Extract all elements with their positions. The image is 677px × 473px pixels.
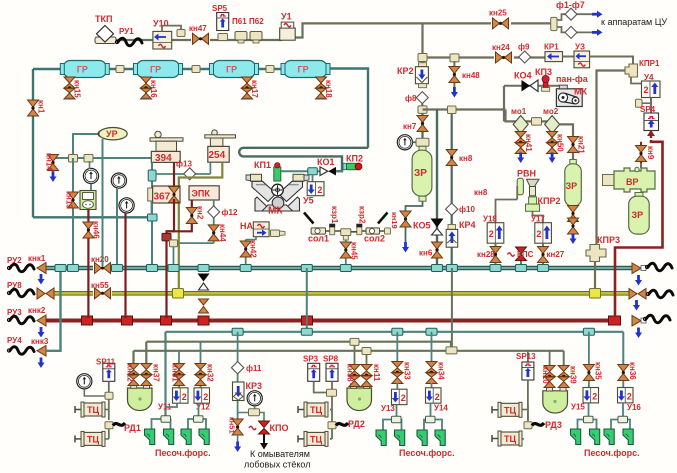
svg-text:кн2: кн2 — [196, 206, 205, 220]
fitting У14 T — [426, 416, 436, 423]
fitting ф1-ф7 manifold — [551, 14, 592, 32]
connector кн13 bus — [68, 265, 79, 272]
separator мо1 — [511, 107, 528, 133]
wire мо2 to кн21/ЗР — [560, 124, 573, 163]
svg-text:кнк2: кнк2 — [28, 306, 46, 315]
svg-text:ЗР: ЗР — [414, 168, 427, 179]
wire кн44 to bus — [174, 243, 214, 265]
fitting У16 T — [618, 416, 628, 423]
svg-text:кн6: кн6 — [419, 249, 433, 258]
wire У4 down / fitting — [636, 98, 652, 114]
svg-text:МК: МК — [268, 206, 283, 217]
device НА (воздухоочиститель) — [240, 221, 269, 237]
wire КО4 line y85.8 — [504, 85, 559, 87]
pressure switch SP11 — [96, 358, 116, 421]
regulator КПР2 — [526, 196, 561, 211]
arrow к аппаратам upper — [592, 11, 603, 18]
svg-text:У16: У16 — [627, 403, 641, 412]
svg-text:SP11: SP11 — [96, 358, 116, 367]
hose РУ8 right — [646, 290, 673, 298]
valve кн8 — [446, 150, 473, 166]
svg-text:ф8: ф8 — [405, 94, 417, 103]
tank ГР4 — [281, 61, 330, 78]
solenoid сол2 — [364, 213, 388, 244]
svg-text:КР4: КР4 — [459, 220, 476, 230]
svg-text:РД3: РД3 — [545, 420, 562, 430]
pressure switch SP3 — [303, 355, 320, 382]
valve кн33 — [392, 362, 412, 390]
fitting maroon T x166 — [162, 233, 171, 241]
svg-text:РД2: РД2 — [348, 419, 365, 429]
wire сол chain — [326, 230, 385, 233]
svg-text:Песоч.форс.: Песоч.форс. — [399, 448, 455, 458]
wire ТКП main line y40 — [112, 39, 282, 41]
valve кн24 — [492, 43, 514, 63]
svg-text:кзр2: кзр2 — [358, 206, 367, 224]
wire мо1 to КО5 column x437 — [436, 110, 438, 266]
svg-text:КПР3: КПР3 — [597, 235, 620, 245]
device У5 — [303, 182, 324, 206]
junction РУ3 x127 — [122, 316, 133, 325]
connector кн33 drop — [392, 328, 403, 364]
svg-text:кн11: кн11 — [372, 364, 381, 382]
wire У12 trouser — [188, 403, 206, 429]
wire У10 bypass loop — [162, 26, 181, 32]
filter ф8 — [405, 92, 428, 104]
wire НА to кн42 — [246, 237, 256, 240]
wire line A y331.8 — [166, 332, 624, 418]
valve кн42 — [240, 240, 257, 272]
valve кн45 — [340, 240, 358, 272]
wire ЭПК right / ф12 — [213, 200, 215, 243]
svg-text:УР: УР — [106, 129, 118, 139]
tank ЗР far right — [629, 193, 650, 235]
valve кн9 — [636, 142, 656, 168]
filter ф9 — [518, 43, 531, 64]
svg-text:РД1: РД1 — [124, 423, 141, 433]
valve кн2 — [186, 206, 204, 224]
svg-text:кн51: кн51 — [228, 417, 237, 434]
svg-text:КПР1: КПР1 — [639, 59, 660, 68]
svg-text:кн33: кн33 — [403, 362, 412, 380]
filter ф10 — [446, 203, 476, 215]
svg-text:У18: У18 — [483, 215, 497, 224]
device П61 — [232, 17, 247, 43]
svg-text:254: 254 — [209, 150, 226, 161]
nozzle П12 — [623, 429, 633, 445]
svg-text:ЗР: ЗР — [632, 210, 644, 220]
svg-text:кн24: кн24 — [492, 43, 510, 52]
svg-text:У17: У17 — [531, 215, 545, 224]
svg-text:У5: У5 — [303, 196, 314, 206]
valve кн48 — [449, 61, 480, 98]
svg-text:КП2: КП2 — [346, 154, 363, 164]
nipple tank3-4 — [266, 66, 274, 73]
svg-text:ф12: ф12 — [222, 208, 238, 217]
svg-text:кн55: кн55 — [91, 281, 109, 290]
connector кн44 bus — [168, 265, 179, 272]
fitting ТЦ5 tap — [520, 405, 532, 439]
connector КР4 bus + sand feed drop — [446, 265, 457, 348]
hose РД3 — [532, 420, 562, 430]
svg-text:кзр1: кзр1 — [330, 206, 339, 224]
svg-text:кн18: кн18 — [324, 80, 333, 98]
connector line A x306 — [301, 328, 312, 335]
valve кн19 — [390, 210, 411, 253]
wire РУ4 to bus РУ2 — [46, 268, 61, 351]
svg-text:ВР: ВР — [626, 177, 639, 187]
hose РУ4 — [7, 347, 34, 355]
svg-text:кн28: кн28 — [477, 250, 495, 259]
wire left column x33 — [33, 69, 156, 217]
valve кн41 — [515, 132, 533, 164]
component ТКП — [95, 14, 116, 44]
filter ф11 — [231, 362, 262, 374]
fitting У13 T — [392, 416, 402, 423]
fitting SP13 drop — [527, 351, 529, 362]
svg-text:пан-фа: пан-фа — [556, 74, 589, 84]
wire УЗ to КПР1 — [590, 57, 633, 65]
valve кн34 — [426, 362, 446, 388]
fitting x173 y243 — [170, 240, 178, 247]
svg-text:кнк1: кнк1 — [28, 254, 46, 263]
wire кн2 maroon — [167, 200, 192, 231]
junction РУ3 x307 — [302, 316, 313, 325]
svg-text:кн46: кн46 — [92, 221, 101, 239]
fitting cross ЗР top — [416, 138, 429, 146]
tank ГР1 — [60, 61, 109, 78]
svg-text:кн8: кн8 — [474, 188, 488, 197]
wire мо manifold — [506, 110, 553, 122]
nozzle П8 — [435, 430, 445, 446]
valve кн50 — [547, 132, 565, 164]
nozzle П11 — [604, 429, 614, 445]
tank ГР2 — [134, 61, 183, 78]
svg-text:КПР2: КПР2 — [538, 196, 561, 206]
fitting T x451 y109 — [448, 106, 457, 114]
svg-text:ф1-ф7: ф1-ф7 — [556, 0, 585, 10]
valve кн6 — [419, 242, 443, 272]
svg-text:кн35: кн35 — [594, 362, 603, 380]
svg-text:SP8: SP8 — [323, 355, 339, 364]
valve кн37 — [141, 364, 161, 386]
svg-text:ф11: ф11 — [246, 364, 262, 373]
svg-text:КР3: КР3 — [246, 381, 263, 391]
svg-text:кн41: кн41 — [524, 134, 533, 152]
svg-text:Песоч.форс.: Песоч.форс. — [584, 448, 640, 458]
filter ф7 diamond — [565, 26, 577, 38]
junction РУ3 x614 — [609, 316, 621, 325]
gauge M2 — [111, 173, 126, 272]
svg-text:ЗР: ЗР — [566, 181, 578, 191]
valve кн39 — [558, 366, 577, 388]
svg-text:НА: НА — [240, 221, 253, 231]
device У17 — [531, 215, 551, 244]
pressure switch SP13 — [516, 352, 536, 421]
fitting T x422 y57 — [418, 54, 427, 62]
svg-text:2: 2 — [203, 392, 208, 402]
svg-text:КПС: КПС — [517, 250, 534, 259]
svg-text:У4: У4 — [644, 73, 654, 82]
connector кн34 drop — [426, 328, 437, 364]
svg-text:SP4: SP4 — [640, 105, 656, 114]
svg-text:ТКП: ТКП — [95, 14, 112, 24]
wire РУ8 end valve — [629, 289, 646, 311]
svg-text:УЗ: УЗ — [575, 43, 585, 52]
svg-text:2: 2 — [435, 392, 440, 402]
bus РУ2 (feed main, teal) — [42, 266, 633, 270]
svg-text:2: 2 — [536, 229, 541, 239]
svg-text:лобовых стёкол: лобовых стёкол — [244, 460, 311, 470]
wire У1 riser to top line — [295, 23, 551, 37]
svg-text:У14: У14 — [434, 404, 448, 413]
svg-text:РУ1: РУ1 — [119, 27, 134, 36]
nozzle П7 — [417, 430, 427, 446]
svg-text:ф9: ф9 — [518, 43, 530, 52]
horn РВН — [517, 169, 539, 196]
valve ЗР right drain lower — [568, 218, 579, 244]
valve кн12 — [126, 364, 140, 386]
svg-text:кн36: кн36 — [628, 362, 637, 380]
fitting x451 y350 — [446, 347, 457, 354]
fitting T сол — [341, 229, 351, 240]
gauge M5 — [77, 374, 105, 396]
arrow КПО down black — [260, 434, 268, 450]
svg-text:КП3: КП3 — [535, 67, 552, 77]
junction РУ3 x203 — [198, 316, 209, 325]
regulator КР2 — [397, 63, 428, 88]
device У13 — [381, 389, 407, 413]
connector РУ4 on bus — [55, 265, 66, 272]
device У1 — [280, 12, 296, 41]
wire ВР feed stub — [640, 163, 642, 168]
wire КПР1 to У4 — [631, 77, 642, 84]
device У14 — [426, 388, 449, 413]
svg-text:ф13: ф13 — [176, 160, 192, 169]
tank ЗР right (запасной резервуар) — [565, 160, 582, 207]
gauge M3 — [119, 198, 134, 318]
valve кн13 — [65, 191, 79, 209]
pressure switch SP4 — [640, 105, 659, 131]
valve кнк3 — [31, 337, 49, 368]
hose РУ3 — [7, 316, 34, 324]
svg-text:2: 2 — [489, 229, 494, 239]
nozzle П4 — [199, 429, 209, 445]
valve кнк1 — [28, 254, 46, 285]
junction yellow x595 — [590, 289, 601, 299]
svg-text:кн50: кн50 — [556, 134, 565, 152]
svg-text:кн8: кн8 — [459, 154, 473, 163]
svg-text:кн13: кн13 — [65, 191, 74, 209]
wire У14 trouser — [424, 403, 442, 430]
bus РУ8 (yellow) — [54, 291, 629, 296]
cylinder ТЦ4 — [298, 431, 328, 446]
wire У15 trouser — [578, 403, 597, 430]
valve КПО (red) — [249, 421, 288, 434]
svg-text:КР1: КР1 — [544, 43, 559, 52]
svg-text:У13: У13 — [381, 404, 395, 413]
svg-text:кн42: кн42 — [249, 240, 258, 258]
wire feed line y57.5 — [423, 23, 546, 65]
svg-text:кн32: кн32 — [206, 364, 215, 382]
fitting washer T — [238, 409, 264, 421]
svg-text:кн20: кн20 — [91, 255, 109, 264]
wire maroon СП4-ВР loop — [615, 140, 663, 316]
filter ф1 diamond — [565, 8, 577, 20]
svg-text:2: 2 — [401, 393, 406, 403]
valve РУ8 inlet — [37, 288, 54, 299]
svg-text:SP3: SP3 — [303, 355, 319, 364]
wire ЗР drain to кн19 — [406, 201, 423, 210]
svg-text:КО5: КО5 — [413, 221, 431, 231]
hose РУ2 right — [645, 263, 672, 271]
nozzle П6 — [395, 430, 405, 446]
svg-text:кн14: кн14 — [45, 153, 54, 171]
svg-text:394: 394 — [155, 153, 172, 164]
valve кн47 — [189, 24, 210, 44]
nipple tank2-3 — [192, 66, 200, 73]
pressure switch КП2 — [343, 154, 363, 170]
stopcock кзр2 — [356, 206, 366, 235]
svg-text:кн25: кн25 — [489, 9, 507, 18]
fitting T мо — [532, 118, 542, 126]
check valve КО5 — [413, 219, 444, 236]
tank УР (уравнительный) — [73, 128, 127, 156]
connector У5 bus + drop — [301, 265, 312, 332]
fitting T x454 y57 — [450, 54, 459, 62]
valve кн25 — [489, 9, 511, 29]
tank ГР3 — [210, 61, 259, 78]
device У15 — [571, 388, 599, 412]
nozzle П10 — [590, 429, 600, 445]
valve кн11 — [361, 364, 381, 387]
wire РУ3 end valve — [632, 316, 646, 339]
svg-text:сол2: сол2 — [364, 234, 385, 244]
wire long cooling pipe — [239, 148, 368, 171]
svg-text:мо1: мо1 — [511, 107, 527, 116]
cylinder ТЦ5 — [492, 402, 522, 417]
valve кн32 — [195, 342, 215, 388]
valve кн16 — [141, 77, 159, 99]
junction РУ3 x87 — [82, 316, 93, 325]
tank РД1 — [128, 384, 153, 411]
svg-text:КПО: КПО — [270, 423, 289, 433]
svg-text:кн17: кн17 — [250, 80, 259, 98]
wire 394 maroon down — [173, 162, 175, 186]
wire line C y350.8 — [134, 351, 564, 366]
svg-text:РУ4: РУ4 — [7, 336, 22, 345]
valve кн10 — [541, 366, 555, 388]
svg-text:SP13: SP13 — [516, 352, 536, 361]
junction РУ3 x166 — [161, 316, 172, 325]
wire ф8 to T y109.5 — [421, 104, 423, 114]
valve кн18 — [316, 77, 334, 99]
device У18 — [483, 215, 504, 244]
fitting ТЦ4 tap — [328, 422, 336, 429]
device УЗ — [563, 43, 590, 68]
wire ф13 line y171 — [156, 162, 210, 174]
svg-text:SP5: SP5 — [212, 4, 228, 13]
wire кн8 column x451.7 — [451, 110, 453, 266]
svg-text:МК: МК — [574, 87, 587, 97]
hose РД1 — [113, 423, 141, 433]
fitting КПР1 — [625, 59, 660, 77]
valve кн15 — [64, 77, 82, 99]
connector ф11 drop — [232, 328, 243, 364]
valve кн1 — [28, 100, 46, 116]
solenoid сол1 — [304, 213, 329, 244]
svg-text:КО1: КО1 — [317, 157, 335, 167]
stopcock кзр1 — [329, 206, 339, 235]
check chain x203: black — [198, 265, 210, 291]
wire 367 maroon down to bus — [167, 199, 175, 318]
nozzle П3 — [181, 429, 191, 445]
regulator КР4 — [446, 220, 475, 247]
svg-text:2: 2 — [317, 185, 322, 195]
wire КО1 to x343 — [336, 170, 343, 172]
svg-text:кн27: кн27 — [547, 250, 565, 259]
device 367 — [148, 186, 180, 203]
brake valve 254 — [205, 130, 236, 162]
svg-text:мо2: мо2 — [543, 107, 559, 116]
svg-text:У10: У10 — [153, 19, 169, 29]
svg-text:ф10: ф10 — [459, 205, 475, 214]
wire x504 riser — [503, 86, 505, 122]
fitting У11 T — [161, 416, 171, 423]
valve кн51 — [228, 417, 244, 452]
gauge M1 — [83, 161, 98, 191]
svg-text:2: 2 — [182, 392, 187, 402]
connector кн35 drop — [583, 328, 594, 364]
svg-text:кн39: кн39 — [569, 366, 578, 384]
fitting T У5 — [308, 168, 318, 182]
pressure switch SP8 — [323, 355, 339, 382]
tank ЗР middle — [412, 146, 432, 201]
filter ф12 — [208, 206, 238, 218]
pressure switch КП1 — [254, 160, 281, 181]
wire кн13 column — [72, 158, 74, 266]
svg-text:кн45: кн45 — [350, 242, 359, 260]
valve chain x203 orange — [199, 299, 209, 313]
regulator КР1 — [544, 43, 563, 62]
svg-text:П62: П62 — [249, 17, 264, 26]
nozzle П2 — [164, 429, 174, 445]
fitting У12 T — [194, 416, 204, 423]
brake valve 394 — [150, 131, 183, 164]
svg-text:кн16: кн16 — [149, 80, 158, 98]
fitting T x422 y109.5 — [418, 106, 427, 114]
valve кн27 — [538, 243, 565, 271]
connector y217 line end — [148, 214, 158, 221]
svg-text:кн12: кн12 — [126, 364, 135, 382]
wire РУ2 end valve — [632, 263, 646, 286]
wire КПР2 to У17 — [533, 211, 544, 222]
fitting ТЦ1 tap — [105, 392, 113, 409]
tank РД2 — [347, 384, 372, 411]
svg-text:кн19: кн19 — [390, 212, 399, 229]
svg-text:кн37: кн37 — [152, 364, 161, 382]
device У10 — [153, 19, 172, 50]
fitting x87 y158 — [84, 155, 93, 163]
filter ф13 — [176, 160, 196, 180]
valve кн21 — [568, 136, 586, 154]
fitting кн11 drop — [362, 348, 371, 367]
air distributor ВР — [603, 167, 656, 192]
gauge M4 — [397, 135, 417, 150]
wire line B y341.7 — [146, 342, 451, 366]
tank РД3 — [543, 387, 568, 414]
device У16 — [618, 388, 642, 413]
